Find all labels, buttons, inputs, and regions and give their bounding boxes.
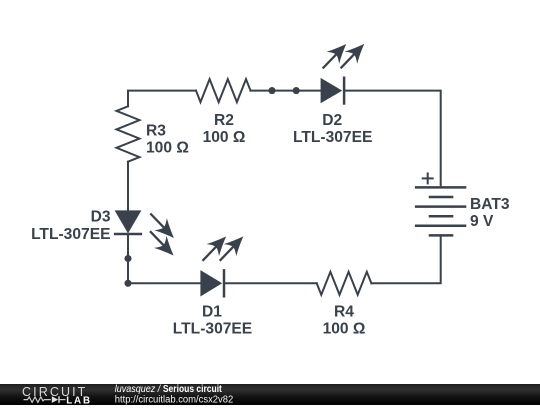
- svg-text:R2: R2: [214, 112, 234, 129]
- footer url line: [115, 394, 233, 405]
- node dot A (top wire): [268, 87, 275, 94]
- svg-text:100 Ω: 100 Ω: [146, 140, 189, 157]
- svg-text:100 Ω: 100 Ω: [203, 129, 246, 146]
- resistor R4: [317, 272, 372, 295]
- svg-text:D2: D2: [322, 112, 342, 129]
- wire top-left corner to R2: [128, 91, 196, 107]
- wire D3 cathode down to bottom corner: [128, 234, 200, 283]
- wire R4 to bottom-right corner up to battery: [371, 235, 440, 283]
- svg-text:D3: D3: [91, 209, 111, 226]
- footer credit line bold part: [163, 384, 222, 395]
- svg-text:D1: D1: [202, 303, 222, 320]
- svg-text:R3: R3: [146, 123, 166, 140]
- svg-text:LTL-307EE: LTL-307EE: [173, 321, 252, 338]
- footer credit line italic part: [115, 384, 162, 396]
- battery plus sign: [422, 172, 434, 184]
- wire D1 to R4: [226, 282, 317, 284]
- svg-text:BAT3: BAT3: [470, 196, 510, 213]
- node dot D (bottom-left corner): [124, 280, 131, 287]
- svg-text:Serious circuit: Serious circuit: [163, 384, 222, 395]
- LED D3 symbol: [114, 207, 180, 261]
- resistor R3: [117, 106, 140, 161]
- wire R3 to D3: [127, 162, 129, 211]
- wire R2 to D2: [251, 90, 321, 92]
- logo resistor squiggle: [24, 397, 51, 402]
- LED D2 symbol: [316, 38, 370, 105]
- svg-text:100 Ω: 100 Ω: [323, 321, 366, 338]
- battery BAT3 symbol: [415, 187, 466, 235]
- node dot B (top wire): [293, 87, 300, 94]
- LED D1 symbol: [196, 230, 249, 297]
- resistor R2: [196, 79, 251, 102]
- svg-text:9 V: 9 V: [470, 213, 494, 230]
- footer bar background: [0, 384, 540, 405]
- svg-text:R4: R4: [334, 303, 354, 320]
- node dot C (left column): [124, 255, 131, 262]
- svg-text:LTL-307EE: LTL-307EE: [293, 129, 372, 146]
- logo diode: [52, 396, 58, 403]
- svg-text:LAB: LAB: [66, 395, 92, 405]
- wire D2 to top-right corner down to battery: [344, 91, 441, 188]
- svg-text:http://circuitlab.com/csx2v82: http://circuitlab.com/csx2v82: [115, 394, 233, 405]
- svg-text:LTL-307EE: LTL-307EE: [31, 226, 110, 243]
